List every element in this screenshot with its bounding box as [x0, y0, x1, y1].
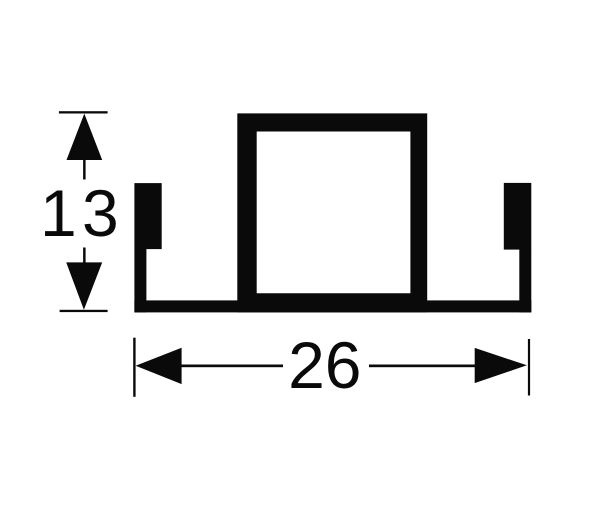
horizontal dimension: right extension tick: [528, 339, 530, 396]
vertical dimension: down arrowhead: [66, 262, 102, 309]
horizontal dimension: left arrowhead: [136, 348, 182, 384]
svg-text:3: 3: [82, 176, 119, 250]
horizontal dimension: right line segment: [369, 365, 476, 368]
vertical dimension: upper stem: [83, 158, 86, 180]
vertical dimension: bottom extension tick: [60, 310, 108, 312]
profile cross-section: central box (outer rect with inner hole): [237, 113, 427, 312]
horizontal dimension: left line segment: [180, 365, 283, 368]
svg-text:26: 26: [288, 328, 361, 402]
profile cross-section: left hook (thick top lip): [134, 183, 161, 249]
profile cross-section: right hook (thick top lip): [504, 183, 532, 250]
horizontal dimension: right arrowhead: [475, 348, 527, 383]
vertical dimension: up arrowhead: [67, 114, 103, 160]
vertical dimension: lower stem: [83, 248, 86, 264]
vertical dimension: top extension tick: [59, 111, 108, 113]
horizontal dimension: left extension tick: [133, 338, 135, 397]
profile cross-section: base flange: [134, 300, 531, 312]
profile cross-section: left thin wall: [134, 249, 146, 313]
profile cross-section: right thin wall: [519, 249, 531, 312]
svg-text:1: 1: [40, 176, 77, 250]
